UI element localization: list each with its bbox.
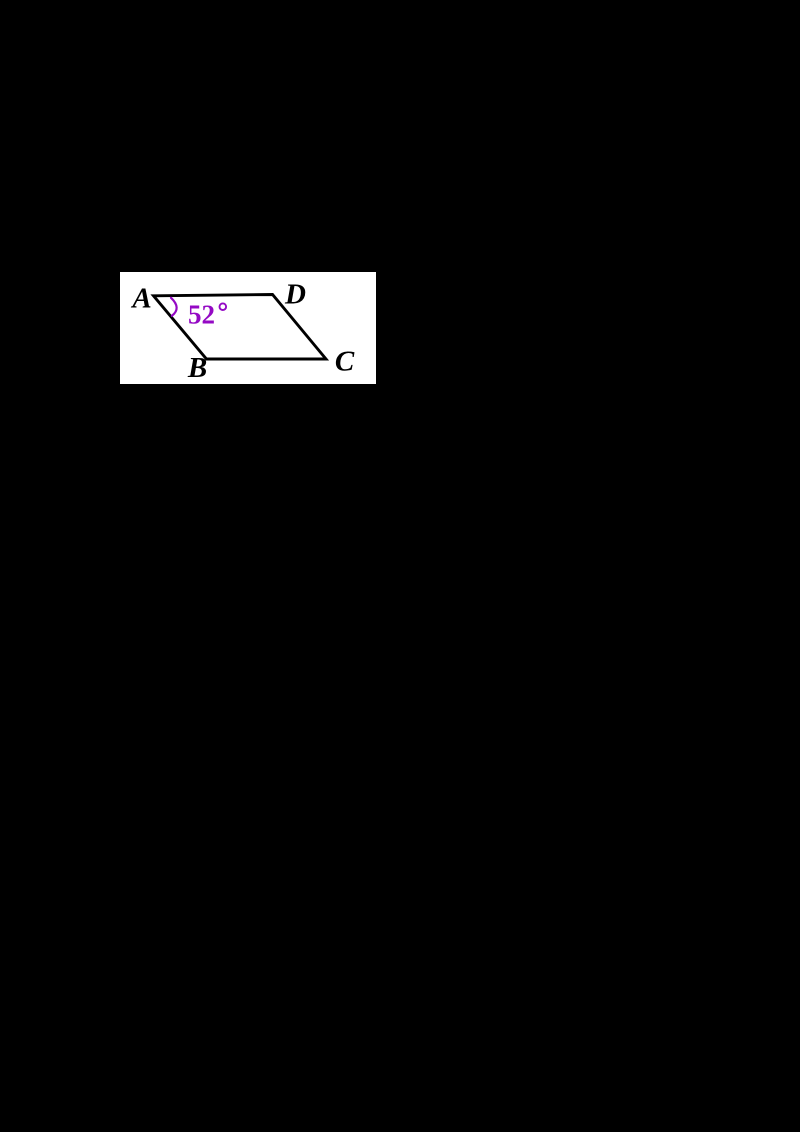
degree symbol <box>220 303 227 310</box>
white figure panel <box>120 272 376 384</box>
angle arc at vertex A <box>171 298 177 316</box>
parallelogram ABCD outline <box>154 295 327 360</box>
svg-text:C: C <box>335 346 355 378</box>
svg-text:B: B <box>187 352 207 384</box>
svg-text:A: A <box>130 283 151 315</box>
svg-text:52: 52 <box>188 299 215 329</box>
svg-text:D: D <box>284 278 306 310</box>
